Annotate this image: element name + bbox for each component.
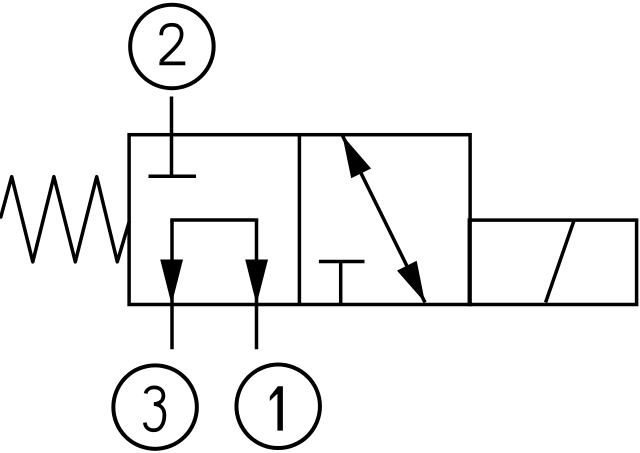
divider between position 1 and position 2 [298, 135, 302, 305]
bracket connecting flow paths, position 1 [170, 218, 258, 222]
spring [1, 177, 129, 262]
flow arrowhead to port 1 [245, 260, 268, 305]
valve body outline [129, 135, 470, 305]
wire from port 2 to valve [170, 97, 174, 177]
flow arrowhead to port 3 [160, 260, 183, 305]
port label 3 [145, 387, 165, 430]
blocked port T symbol, position 1 [149, 175, 197, 179]
port circle 3 [113, 365, 197, 449]
flow arrowhead down, position 2 [397, 261, 425, 303]
port label 2 [159, 25, 185, 64]
blocked port T stem, position 2 [339, 262, 343, 305]
wire left port (bracket left leg down to port 3 stub) [170, 220, 174, 349]
solenoid box [469, 220, 636, 304]
port circle 2 [130, 5, 214, 89]
port circle 1 [236, 365, 320, 449]
flow arrowhead up, position 2 [342, 135, 371, 178]
wire right port (bracket right leg down to port 1 stub) [255, 220, 259, 349]
flow path diagonal arrow shaft, position 2 [342, 135, 425, 302]
solenoid diagonal [546, 220, 575, 302]
blocked port T symbol, position 2 [319, 260, 365, 264]
port label 1 [270, 386, 283, 430]
